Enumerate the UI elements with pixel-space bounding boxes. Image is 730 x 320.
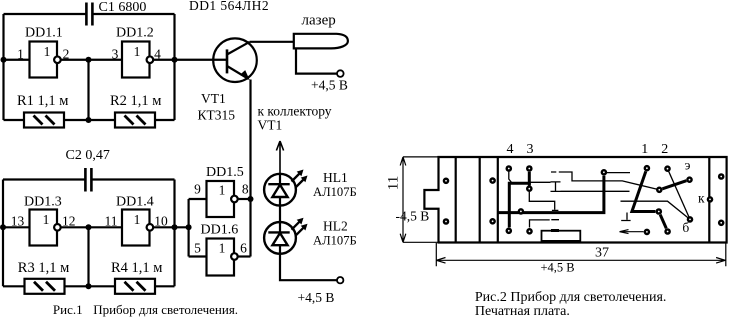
wire left rail osc2 [2,180,4,287]
dimension 37 horizontal [436,243,726,266]
svg-text:DD1.3: DD1.3 [24,195,62,210]
svg-text:3: 3 [112,47,119,62]
svg-text:DD1.4: DD1.4 [116,195,154,210]
pad lower right [688,217,692,221]
inversion bubble DD1.4 output [147,224,154,231]
pad strip 3 top [491,179,495,183]
trace thin from pad F [530,220,560,228]
trace thin pad A stub [509,171,512,183]
node junction dots osc1 [1,57,178,123]
trace thin long middle [561,190,630,192]
trace thick ground rail to pad G [498,176,604,213]
svg-text:R3 1,1 м: R3 1,1 м [18,260,69,276]
svg-text:1: 1 [134,212,141,227]
svg-text:Рис.1: Рис.1 [53,302,83,317]
terminal +4,5 В LEDs [337,277,343,283]
wire VT1 emitter vertical to DD1.5 DD1.6 outputs [249,80,251,200]
PCB board outline with key notch [424,157,726,243]
wire DD1.5 output [238,198,251,200]
svg-text:АЛ107Б: АЛ107Б [313,234,357,248]
svg-text:6: 6 [240,241,247,256]
pad F [527,229,531,233]
svg-text:1: 1 [641,142,648,157]
wire right rail osc1 [173,14,175,120]
wire paralleled outputs vertical [249,199,251,257]
svg-text:DD1.2: DD1.2 [116,26,154,41]
pad middle [657,188,661,192]
trace thin capacitor plate run [551,172,659,190]
trace thick collector diagonal [632,171,666,228]
wire feeder vertical to DD1.5 and DD1.6 inputs [188,199,190,257]
wire DD1.5 input [189,198,207,200]
wire DD1.6 output [238,255,251,257]
pad right strip top [719,174,723,178]
trace thick B-C vertical [528,172,531,186]
resistor R2 [115,113,155,128]
inversion bubble DD1.5 output [231,196,238,203]
wire DD1.3 input [3,226,30,228]
wire resistor row osc2 [3,285,175,287]
svg-text:37: 37 [595,246,609,261]
wire laser to supply terminal [296,48,337,73]
inverter DD1.5 [207,181,235,217]
wire top rail of second multivibrator [3,178,175,180]
component footprint rectangle [542,231,581,241]
svg-text:4: 4 [507,142,514,157]
svg-text:3: 3 [527,142,534,157]
trace thin arrow to pad [620,230,644,234]
pad 4 strip left top [444,179,448,183]
pad arrow left [645,230,649,234]
resistor R1 [24,113,64,128]
pad base bottom [666,229,670,233]
wire resistor row osc1 [4,119,175,121]
PCB rail strip lines [456,157,710,243]
svg-text:1: 1 [219,241,226,256]
svg-text:КТ315: КТ315 [198,107,236,122]
wire DD1.4 output to DD1.5 DD1.6 inputs [153,226,188,228]
trace thin capacitor below rail [621,213,630,221]
wire top rail of first multivibrator [4,13,175,15]
wire LED chain to supply terminal [280,254,337,280]
pad G [602,170,606,174]
pad strip 3 bottom [491,219,495,223]
svg-text:1: 1 [43,212,50,227]
wire VT1 collector to laser [250,41,294,43]
svg-text:+4,5 В: +4,5 В [298,290,335,305]
svg-text:+4,5 В: +4,5 В [541,261,575,275]
svg-text:5: 5 [194,241,201,256]
inverter DD1.2 [122,42,150,78]
laser module [294,34,348,49]
wire DD1.1 output to DD1.2 input [61,59,122,61]
dimension 11 vertical [400,157,438,242]
svg-text:8: 8 [242,182,249,197]
svg-text:-4,5 В: -4,5 В [396,209,430,224]
svg-text:э: э [685,158,691,173]
svg-text:R2 1,1 м: R2 1,1 м [110,93,161,109]
svg-text:б: б [682,220,689,235]
svg-text:R4 1,1 м: R4 1,1 м [111,260,162,276]
pad right strip bottom [719,221,723,225]
resistor R4 [115,279,155,294]
svg-text:VT1: VT1 [258,117,283,132]
inverter DD1.4 [122,210,150,246]
svg-text:DD1.1: DD1.1 [25,26,63,41]
svg-text:R1 1,1 м: R1 1,1 м [17,93,68,109]
pad 1 [645,166,649,170]
terminal +4,5 В laser [337,70,344,77]
wire LED chain vertical [279,174,281,254]
trace thin middle right run [621,201,688,217]
pad strip left bottom [444,219,448,223]
wire left rail osc1 [2,14,4,120]
LED HL1 [264,174,296,206]
svg-text:C2 0,47: C2 0,47 [66,148,110,163]
svg-text:лазер: лазер [302,13,336,29]
resistor R3 [25,279,65,294]
node junction dot outputs [248,196,254,202]
pad E [507,229,511,233]
pad collector [708,197,712,201]
pad D [519,209,523,213]
svg-text:HL2: HL2 [323,219,348,234]
wire osc2 feedback vertical [87,227,89,286]
svg-text:1: 1 [219,183,226,198]
pad B [527,166,531,170]
transistor VT1 [213,38,257,82]
wire osc1 feedback vertical [87,60,89,120]
svg-text:11: 11 [386,176,402,190]
inversion bubble DD1.6 output [231,253,238,260]
LED HL2 [264,222,296,254]
inverter DD1.6 [207,239,235,276]
node junction dots osc2 [0,224,192,289]
svg-text:DD1.5: DD1.5 [206,165,244,180]
svg-text:DD1.6: DD1.6 [201,223,239,238]
svg-text:HL1: HL1 [323,170,348,185]
trace thin from pad G right [607,172,631,174]
wire DD1.6 input [189,255,207,257]
wire DD1.2 output to VT1 base [153,59,227,61]
pad C [527,187,531,191]
svg-text:9: 9 [194,182,201,197]
wire DD1.3 output to DD1.4 input [61,226,122,228]
svg-text:C1 6800: C1 6800 [99,0,147,15]
wire DD1.1 input [4,59,30,61]
svg-text:DD1 564ЛН2: DD1 564ЛН2 [189,0,269,13]
svg-text:1: 1 [44,44,51,59]
svg-text:1: 1 [134,44,141,59]
svg-text:Рис.2 Прибор для светолечения.: Рис.2 Прибор для светолечения. [475,290,667,305]
svg-text:к: к [698,191,705,206]
svg-text:VT1: VT1 [201,91,226,106]
trace thin from pad C [529,192,558,210]
inversion bubble DD1.2 output [147,56,154,63]
wire right rail osc2 [173,180,175,287]
svg-text:к коллектору: к коллектору [258,104,332,119]
pad emitter [687,178,691,182]
svg-text:2: 2 [661,142,668,157]
trace thin capacitor lead and plates [529,182,560,192]
capacitor C1 [86,3,92,26]
inversion bubble DD1.3 output [54,224,61,231]
svg-text:11: 11 [105,214,118,229]
pad 2 [665,167,669,171]
trace thin pad 2 diagonal [669,171,689,217]
svg-text:АЛ107Б: АЛ107Б [313,185,357,199]
inversion bubble DD1.1 output [54,56,61,63]
trace thick elbow to pad E [509,183,531,227]
node к коллектору VT1 arrow [276,141,283,174]
capacitor C2 [85,168,91,192]
trace thick emitter diagonal [662,181,686,189]
inverter DD1.1 [30,42,58,78]
svg-text:+4,5 В: +4,5 В [311,78,348,93]
inverter DD1.3 [30,210,58,246]
pad A [507,166,511,170]
svg-text:Печатная плата.: Печатная плата. [475,304,570,319]
pad base left [657,209,661,213]
svg-text:Прибор для светолечения.: Прибор для светолечения. [93,302,238,317]
